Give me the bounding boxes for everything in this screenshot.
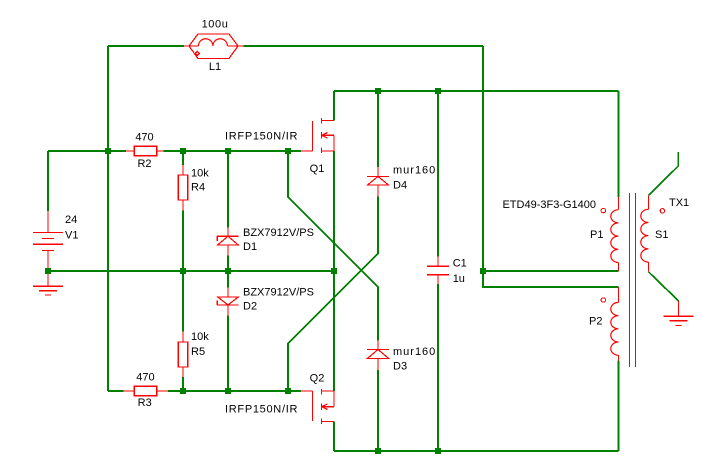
wire D1 column xyxy=(227,151,229,271)
svg-text:BZX7912V/PS: BZX7912V/PS xyxy=(243,227,314,239)
svg-text:D3: D3 xyxy=(393,361,407,373)
wire center tap to P2 xyxy=(483,271,618,287)
svg-text:Q1: Q1 xyxy=(310,163,325,175)
wire S1 top stub xyxy=(648,152,678,196)
ground (secondary) xyxy=(664,301,694,326)
svg-text:mur160: mur160 xyxy=(393,346,436,358)
transformer TX1 winding P2 xyxy=(611,287,619,361)
transformer polarity dot P2 xyxy=(601,298,605,302)
wire source column xyxy=(333,151,335,391)
svg-text:D2: D2 xyxy=(243,301,257,313)
svg-text:ETD49-3F3-G1400: ETD49-3F3-G1400 xyxy=(502,199,596,211)
resistor R2 xyxy=(126,146,164,155)
svg-text:mur160: mur160 xyxy=(393,165,436,177)
wire gate rail 1 xyxy=(48,150,301,152)
svg-text:10k: 10k xyxy=(191,331,209,343)
wire center tap vertical xyxy=(482,46,484,271)
svg-text:24: 24 xyxy=(65,214,77,226)
wire Q1 drain xyxy=(333,91,335,121)
svg-text:P1: P1 xyxy=(590,229,603,241)
svg-text:S1: S1 xyxy=(655,229,668,241)
svg-text:TX1: TX1 xyxy=(669,197,689,209)
svg-text:IRFP150N/IR: IRFP150N/IR xyxy=(225,404,298,416)
wire top rail right of L1 xyxy=(243,45,483,47)
svg-text:470: 470 xyxy=(135,132,153,144)
node junction (483,271) xyxy=(480,268,486,274)
svg-text:D1: D1 xyxy=(243,241,257,253)
svg-text:470: 470 xyxy=(136,372,154,384)
node junction (108,151) xyxy=(105,148,111,154)
wire P1 top xyxy=(617,91,619,197)
svg-text:R4: R4 xyxy=(191,182,205,194)
mosfet Q1 xyxy=(301,118,334,153)
wire top rail left of L1 xyxy=(108,45,184,47)
zener diode D1 xyxy=(217,228,238,256)
node junction (288,151) xyxy=(285,148,291,154)
battery V1 xyxy=(33,211,63,271)
node junction (378,91) xyxy=(375,88,381,94)
wire drain rail y91 xyxy=(334,90,618,92)
svg-text:D4: D4 xyxy=(393,180,407,192)
inductor L1 xyxy=(184,34,243,59)
node junction (183,391) xyxy=(180,388,186,394)
transformer polarity dot P1 xyxy=(601,208,605,212)
wire Q1 gate to D3 cross xyxy=(288,151,378,340)
wire D4 column xyxy=(377,91,379,167)
svg-text:R3: R3 xyxy=(138,397,152,409)
node junction (438,91) xyxy=(435,88,441,94)
diode D4 xyxy=(367,167,389,197)
transformer polarity dot S1 xyxy=(660,209,664,213)
svg-text:10k: 10k xyxy=(191,167,209,179)
node junction (183,271) xyxy=(180,268,186,274)
svg-text:Q2: Q2 xyxy=(310,373,325,385)
node junction (378,451) xyxy=(375,448,381,454)
wire D4 to Q2 gate cross xyxy=(288,197,378,391)
wire S1 bottom lead xyxy=(648,272,678,301)
wire D3 to bottom rail xyxy=(377,370,379,451)
svg-text:100u: 100u xyxy=(202,19,229,31)
resistor R5 xyxy=(178,331,187,377)
resistor R4 xyxy=(178,165,187,211)
node junction (228,151) xyxy=(225,148,231,154)
svg-text:V1: V1 xyxy=(65,230,78,242)
transformer TX1 core xyxy=(630,193,636,367)
diode D3 xyxy=(367,340,389,370)
wire gate rail 2 xyxy=(108,390,301,392)
capacitor C1 xyxy=(427,256,449,283)
wire bottom rail xyxy=(334,450,618,452)
node junction (438,451) xyxy=(435,448,441,454)
wire battery top xyxy=(47,151,49,211)
svg-text:C1: C1 xyxy=(453,258,467,270)
transformer TX1 winding P1 xyxy=(611,197,619,271)
zener diode D2 xyxy=(217,288,238,316)
wire Q2 drain xyxy=(333,422,335,452)
node junction (48,271) xyxy=(45,268,51,274)
svg-text:1u: 1u xyxy=(453,273,465,285)
wire C1 column xyxy=(437,91,439,451)
node junction (334,271) xyxy=(331,268,337,274)
svg-text:R2: R2 xyxy=(137,158,151,170)
node junction (228,391) xyxy=(225,388,231,394)
ground (battery) xyxy=(33,271,63,295)
svg-text:P2: P2 xyxy=(589,316,602,328)
svg-text:R5: R5 xyxy=(191,346,205,358)
wire P2 bottom xyxy=(617,361,619,452)
svg-text:IRFP150N/IR: IRFP150N/IR xyxy=(225,131,298,143)
svg-text:L1: L1 xyxy=(209,61,221,73)
wire center tap to P1 xyxy=(483,270,618,272)
transformer TX1 winding S1 xyxy=(641,195,649,271)
resistor R3 xyxy=(123,386,168,395)
wire left vertical feed xyxy=(107,46,109,391)
wire R4 column xyxy=(182,151,184,271)
wire D2 column xyxy=(227,271,229,391)
mosfet Q2 xyxy=(301,389,334,424)
node junction (228,271) xyxy=(225,268,231,274)
svg-text:BZX7912V/PS: BZX7912V/PS xyxy=(243,287,314,299)
node junction (183,151) xyxy=(180,148,186,154)
wire mid ground rail xyxy=(48,270,334,272)
wire R5 column xyxy=(182,271,184,391)
node junction (288,391) xyxy=(285,388,291,394)
